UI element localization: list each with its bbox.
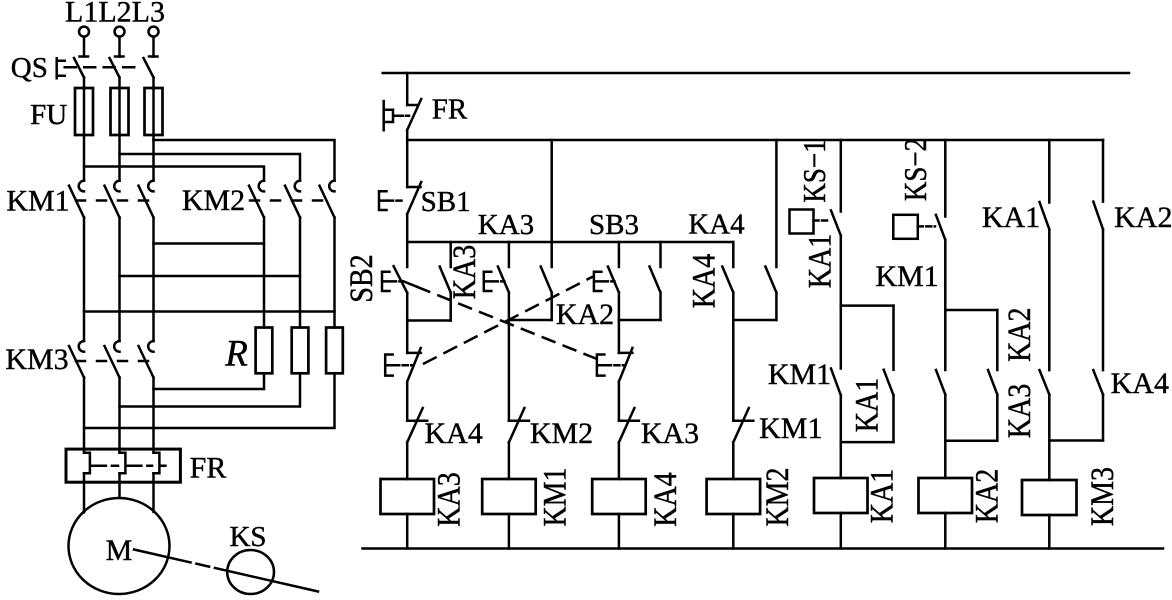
svg-text:KA3: KA3 <box>446 245 483 299</box>
wire rail2 to KS-1 <box>840 140 843 212</box>
svg-text:R: R <box>224 334 248 375</box>
SB2 actuator dashes <box>391 280 403 283</box>
svg-text:KA1: KA1 <box>864 469 901 523</box>
svg-text:KM1: KM1 <box>759 412 822 445</box>
svg-text:KA2: KA2 <box>969 469 1006 523</box>
svg-text:FR: FR <box>432 94 468 126</box>
bus below SB1 <box>407 241 733 244</box>
wire coil KA3 to rail <box>406 514 409 549</box>
svg-text:KA3: KA3 <box>641 417 699 450</box>
wire col L to junction <box>1102 395 1105 441</box>
contact KA4 NO (col L mid) <box>1093 370 1103 394</box>
terminal L1 <box>79 27 89 37</box>
wire col G down <box>732 320 735 421</box>
wire KM1 pole2 down <box>118 218 121 341</box>
wire to coil KA2 <box>944 441 947 478</box>
FR heater linkage dashes <box>97 465 118 468</box>
wire branch L2 to KM2 pole2 <box>120 154 301 181</box>
contactor KM1 pole 2 <box>105 181 120 218</box>
wire KM2 pole2 to R2 <box>299 218 302 328</box>
SB2 NC contact on col E <box>619 348 633 421</box>
svg-text:KA4: KA4 <box>688 209 745 241</box>
SB3 NC contact on col A <box>407 348 421 421</box>
junction bar col L to col K <box>1049 439 1103 442</box>
second rail <box>407 139 1103 142</box>
wire col K middle <box>1048 229 1051 370</box>
resistor R phase2 <box>292 328 309 374</box>
thermal relay FR heater box <box>66 449 180 482</box>
SB1 actuator dashes <box>388 199 404 202</box>
col C actuator dashes <box>493 280 505 283</box>
svg-text:KA3: KA3 <box>430 472 467 526</box>
svg-text:QS: QS <box>11 52 48 84</box>
contact KA4 stub col F <box>659 242 662 267</box>
contact KA4 NO col F <box>650 267 661 321</box>
coil KM3 <box>1022 480 1077 515</box>
wire KM1.3 to KM2.1 <box>154 242 265 245</box>
wire col E to SB2 NC <box>618 320 621 353</box>
contact KA2 NO (col L top) <box>1093 140 1103 229</box>
resistor R phase1 <box>256 328 273 374</box>
switch QS linkage dashes <box>65 66 141 69</box>
coil KA2 <box>919 478 973 513</box>
contact KA3 NO <box>440 267 451 321</box>
button NO contact col C <box>498 267 509 321</box>
contactor KM3 pole 3 <box>139 341 154 377</box>
svg-text:SB1: SB1 <box>421 186 471 218</box>
resistor R phase3 <box>326 328 343 374</box>
contactor KM1 pole 1 <box>69 181 84 218</box>
svg-text:KA4: KA4 <box>1111 367 1169 400</box>
speed switch KS-2 NO contact <box>936 215 945 310</box>
wire branch L3 to KM2 pole3 <box>154 140 335 181</box>
contact KA3 NO (branch col J) <box>988 310 997 441</box>
thermal relay FR NC contact <box>407 99 421 130</box>
merge bar col C/KA2 <box>509 319 552 322</box>
button contact stub SB3 <box>618 242 621 267</box>
interlock KM2 NC contact <box>509 408 529 479</box>
loop bottom bar col J <box>945 439 997 442</box>
svg-text:KA3: KA3 <box>1001 384 1038 438</box>
col C button actuator E <box>484 272 492 291</box>
wire coil KM1 to rail <box>508 514 511 549</box>
contactor KM1 linkage dashes <box>76 199 150 202</box>
SB2 button actuator E <box>382 272 390 291</box>
switch QS pole 2 <box>110 57 124 89</box>
wire L3 terminal to QS <box>152 37 155 57</box>
fuse FU 3 <box>145 88 163 135</box>
svg-text:KA4: KA4 <box>425 417 483 450</box>
contact KA3 NO (col K mid) <box>1040 370 1050 394</box>
loop bottom bar KM1/KA1 <box>841 441 894 444</box>
wire KM1 pole1 down <box>83 218 86 341</box>
coil KM2 <box>707 479 761 514</box>
wire branch L1 to KM2 pole1 <box>84 167 264 181</box>
svg-text:KM1: KM1 <box>6 185 69 218</box>
wire to coil KA1 <box>840 442 843 478</box>
svg-text:KS−2: KS−2 <box>899 138 934 201</box>
wire KM3 pole1 down <box>83 378 86 453</box>
coil KA4 <box>592 479 646 514</box>
fuse FU 1 <box>75 88 93 135</box>
wire KM2 pole3 to R3 <box>333 218 336 328</box>
SB3 NC actuator E <box>385 355 393 376</box>
wire KM3 pole3 down <box>152 378 155 453</box>
wire KM1.2 to KM2.2 <box>120 275 301 278</box>
svg-text:KM2: KM2 <box>530 417 593 450</box>
wire L1 terminal to QS <box>83 37 86 57</box>
wire fuse1 to KM1 pole1 <box>83 135 86 181</box>
speed switch KS-1 NO contact <box>831 211 841 306</box>
wire L2 terminal to QS <box>118 37 121 57</box>
wire KM2 pole1 to R1 <box>263 218 266 328</box>
contact stub col G <box>732 242 735 267</box>
coil KA3 <box>381 479 435 514</box>
merge bar SB3/KA4 <box>619 319 661 322</box>
FR heater element 3 <box>154 453 166 474</box>
switch QS handle <box>57 58 65 78</box>
svg-text:KM3: KM3 <box>5 343 68 376</box>
contactor KM3 pole 2 <box>105 341 120 377</box>
motor M circle <box>69 498 170 594</box>
motor shaft dash-dot line <box>134 550 318 592</box>
FR actuator bracket <box>384 101 397 130</box>
FR actuator dashes <box>399 115 410 118</box>
contactor KM3 pole 1 <box>69 341 84 377</box>
contact KA2 NO (col J) <box>936 310 945 441</box>
KS-1 linkage dashes <box>814 219 831 222</box>
button contact stub col C <box>508 242 511 267</box>
wire fuse3 to KM1 pole3 <box>152 135 155 181</box>
wire fuse2 to KM1 pole2 <box>118 135 121 181</box>
wire rail2 to SB1 <box>406 140 409 187</box>
KS-2 linkage dashes <box>918 225 935 228</box>
merge bar SB2/KA3 <box>407 319 451 322</box>
svg-text:KA1: KA1 <box>982 201 1040 234</box>
SB2 NC actuator E <box>597 355 605 376</box>
contactor KM2 pole 3 <box>320 181 335 218</box>
wire rail2 to contact KA2 <box>550 140 553 267</box>
wire coil KA4 to rail <box>618 514 621 549</box>
terminal L3 <box>149 27 159 37</box>
svg-text:L1L2L3: L1L2L3 <box>65 0 165 29</box>
wire R1 bottom to KM3.3 <box>154 373 265 389</box>
wire col C down <box>508 320 511 421</box>
svg-text:KA2: KA2 <box>1114 201 1172 234</box>
svg-text:KM2: KM2 <box>182 184 245 217</box>
SB3 button actuator E <box>594 272 602 291</box>
svg-text:KM1: KM1 <box>536 467 573 526</box>
wire coil KA1 to rail <box>840 513 843 549</box>
svg-text:KA2: KA2 <box>556 298 614 331</box>
contactor KM1 pole 3 <box>139 181 154 218</box>
interlock KM1 NC contact <box>733 408 753 479</box>
svg-text:KA1: KA1 <box>801 234 838 288</box>
wire KM1 pole3 down <box>152 218 155 341</box>
wire col A to SB3 NC <box>406 321 409 353</box>
svg-text:KM1: KM1 <box>875 260 938 293</box>
bottom supply rail <box>363 547 1164 550</box>
svg-text:FU: FU <box>30 99 67 131</box>
contact KA3 self-hold stub <box>449 242 452 267</box>
svg-text:KS−1: KS−1 <box>798 139 833 202</box>
mechanical linkage diagonal SB2 <box>418 287 598 359</box>
interlock KA4 NC contact <box>407 408 427 479</box>
speed relay KS circle <box>227 550 274 594</box>
svg-text:SB2: SB2 <box>343 254 380 302</box>
wire R2 bottom to KM3.2 <box>120 373 301 406</box>
contactor KM2 pole 1 <box>249 181 264 218</box>
fuse FU 2 <box>111 88 129 135</box>
coil KM1 <box>482 479 536 514</box>
coil KA1 <box>814 478 868 513</box>
stop button SB1 NC contact <box>407 182 421 214</box>
SB2 NC actuator dashes <box>606 364 624 367</box>
wire col L middle <box>1102 229 1105 370</box>
switch QS pole 1 <box>74 57 88 89</box>
svg-text:KA2: KA2 <box>1001 307 1038 361</box>
loop top bar col J <box>945 309 997 312</box>
svg-text:KM3: KM3 <box>1084 467 1121 526</box>
loop top bar KM1/KA1 <box>841 304 894 307</box>
wire col K to coil KM3 <box>1048 395 1051 481</box>
wire coil KM2 to rail <box>732 514 735 549</box>
wire coil KA2 to rail <box>944 513 947 549</box>
svg-text:KM1: KM1 <box>768 358 831 391</box>
wire rail2 to KS-2 <box>944 140 947 217</box>
wire rail1 to FR contact <box>406 73 409 105</box>
contact NO col H <box>765 267 776 321</box>
wire FR to motor phase3 <box>152 473 155 512</box>
start button SB3 NO contact <box>608 267 619 321</box>
FR heater element 1 <box>84 453 96 474</box>
wire FR to motor phase1 <box>83 473 86 512</box>
wire R3 bottom to KM3.1 <box>84 373 335 428</box>
wire KM1.1 to KM2.3 <box>84 310 335 313</box>
svg-text:KA1: KA1 <box>848 378 885 432</box>
svg-text:KA4: KA4 <box>685 254 722 308</box>
contact KM1 NO (col I) <box>831 306 841 443</box>
svg-text:FR: FR <box>190 452 227 485</box>
wire FR to rail2 <box>406 130 409 140</box>
contact KA1 NO (col K top) <box>1040 202 1050 229</box>
mechanical linkage diagonal SB3 <box>424 277 592 364</box>
contact NO col G <box>722 267 733 321</box>
switch QS pole 3 <box>144 57 158 89</box>
contactor KM2 pole 2 <box>285 181 300 218</box>
contact KA1 self-hold NO <box>884 306 894 443</box>
wire rail2 to KA1 contact (col K) <box>1048 140 1051 203</box>
merge bar col G/H <box>733 319 776 322</box>
wire coil KM3 to rail <box>1048 515 1051 549</box>
speed switch KS-1 box <box>790 210 814 234</box>
interlock KA3 NC contact <box>619 408 639 479</box>
wire rail2 to contact col H <box>775 140 778 267</box>
contact KA2 NO <box>541 267 552 321</box>
contactor KM2 linkage dashes <box>250 199 331 202</box>
svg-text:KA4: KA4 <box>647 472 684 526</box>
speed switch KS-2 box <box>893 215 918 239</box>
SB3 NC actuator dashes <box>394 364 412 367</box>
SB2 linkage solid lead <box>403 281 418 287</box>
svg-text:KM2: KM2 <box>759 467 796 526</box>
terminal L2 <box>115 27 125 37</box>
wire KM3 pole2 down <box>118 378 121 453</box>
wire FR to motor phase2 <box>118 473 121 497</box>
svg-text:SB3: SB3 <box>589 209 639 241</box>
SB1 button actuator E <box>379 191 387 210</box>
svg-text:KS: KS <box>229 521 266 553</box>
svg-text:KA3: KA3 <box>478 209 534 241</box>
FR heater element 2 <box>120 453 132 474</box>
wire SB1 to bus1 <box>406 214 409 267</box>
SB3 actuator dashes <box>603 280 615 283</box>
contactor KM3 linkage dashes <box>76 360 148 363</box>
start button SB2 NO contact <box>394 266 408 320</box>
top supply rail <box>383 72 1129 75</box>
svg-text:M: M <box>106 534 133 567</box>
